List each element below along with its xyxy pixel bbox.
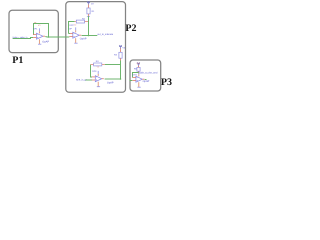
svg-text:OpAP: OpAP [107,81,114,84]
svg-text:Vref: Vref [136,62,140,65]
svg-text:wire_in_gr: wire_in_gr [76,79,87,82]
svg-text:P3: P3 [161,77,172,88]
svg-text:out_to_indicate: out_to_indicate [97,33,113,36]
svg-text:OP1: OP1 [33,28,38,31]
svg-text:Vplus = vplus_in: Vplus = vplus_in [12,36,27,39]
svg-text:P2: P2 [125,23,136,34]
svg-text:OpAP: OpAP [143,80,150,83]
svg-text:OpAP: OpAP [42,40,49,43]
svg-text:able_to_the_end: able_to_the_end [139,71,158,74]
svg-text:OP: OP [69,27,73,30]
svg-text:OpAP: OpAP [80,38,87,41]
svg-text:P1: P1 [12,55,23,66]
